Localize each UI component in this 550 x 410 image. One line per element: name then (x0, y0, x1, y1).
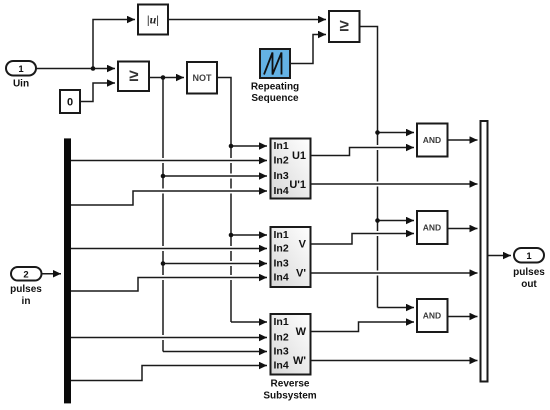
svg-text:In3: In3 (274, 346, 289, 358)
svg-text:2: 2 (23, 269, 28, 280)
svg-text:In4: In4 (274, 185, 289, 197)
svg-text:Uin: Uin (13, 79, 29, 90)
svg-text:≥: ≥ (129, 66, 138, 85)
svg-text:V: V (299, 239, 307, 251)
svg-text:≥: ≥ (340, 16, 349, 35)
svg-text:Subsystem: Subsystem (263, 391, 316, 402)
svg-text:0: 0 (67, 97, 73, 109)
svg-text:In1: In1 (274, 140, 289, 152)
svg-text:W: W (296, 326, 307, 338)
svg-text:W': W' (293, 355, 306, 367)
svg-text:In4: In4 (274, 360, 289, 372)
svg-text:NOT: NOT (193, 73, 213, 83)
svg-text:In3: In3 (274, 258, 289, 270)
svg-text:1: 1 (526, 251, 532, 262)
svg-text:|u|: |u| (147, 13, 159, 27)
svg-text:Sequence: Sequence (251, 93, 299, 104)
svg-text:1: 1 (18, 64, 24, 75)
svg-text:pulses: pulses (513, 267, 545, 278)
svg-text:AND: AND (423, 223, 441, 233)
svg-text:pulses: pulses (10, 284, 42, 295)
svg-text:V': V' (296, 268, 306, 280)
svg-text:In1: In1 (274, 229, 289, 241)
svg-text:Reverse: Reverse (271, 379, 310, 390)
svg-text:in: in (22, 296, 31, 307)
svg-text:In1: In1 (274, 316, 289, 328)
svg-text:AND: AND (423, 135, 441, 145)
svg-text:In3: In3 (274, 170, 289, 182)
svg-text:AND: AND (423, 311, 441, 321)
svg-text:In2: In2 (274, 243, 289, 255)
svg-text:In2: In2 (274, 155, 289, 167)
svg-text:Repeating: Repeating (251, 82, 299, 93)
svg-text:U'1: U'1 (289, 179, 306, 191)
svg-text:In2: In2 (274, 332, 289, 344)
svg-text:out: out (521, 279, 537, 290)
svg-text:U1: U1 (292, 150, 306, 162)
svg-text:In4: In4 (274, 272, 289, 284)
